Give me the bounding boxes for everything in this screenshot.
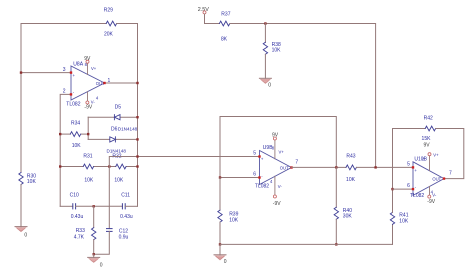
svg-text:0: 0	[268, 82, 271, 88]
svg-text:TL082: TL082	[255, 184, 269, 190]
svg-text:R43: R43	[346, 153, 355, 159]
resistor R42 15K	[422, 116, 436, 143]
wire: R37 to corner over to right column	[230, 24, 376, 168]
svg-text:TL082: TL082	[410, 193, 424, 199]
wire: top feedback row left lead to R29	[21, 23, 106, 25]
wire: R38 bottom to ground	[264, 54, 266, 78]
node: junction R31 left on pin2 net	[59, 165, 61, 167]
svg-text:20K: 20K	[104, 32, 114, 38]
svg-text:0.43u: 0.43u	[120, 214, 133, 220]
wire: C12 branch from midpoint down	[108, 167, 110, 229]
node: junction pin6/R41/R42	[391, 188, 393, 190]
svg-text:OUT: OUT	[280, 165, 289, 170]
svg-text:7: 7	[449, 170, 452, 176]
svg-text:5: 5	[253, 150, 256, 156]
svg-text:-9V: -9V	[427, 199, 435, 205]
resistor R33 4.7K	[74, 228, 96, 241]
node: junction R40-bottom rail	[335, 243, 337, 245]
wire: D5 row	[88, 116, 114, 118]
node: junction R34 right	[87, 133, 89, 135]
svg-text:R29: R29	[104, 8, 113, 14]
wire: R39 bottom to bottom rail	[219, 222, 221, 244]
svg-text:V+: V+	[91, 66, 97, 71]
pin square U8A pin3	[70, 71, 72, 73]
svg-text:15K: 15K	[422, 136, 432, 142]
svg-text:9V: 9V	[272, 133, 279, 139]
svg-text:10K: 10K	[114, 177, 124, 183]
node: junction output-rail	[136, 82, 138, 84]
V+ pin stub and 9V power symbol	[87, 63, 89, 74]
resistor R38 10K	[263, 42, 281, 54]
wire: left vertical net (pin3 node) from top-left corner down to R30	[20, 24, 22, 173]
svg-text:6: 6	[407, 183, 410, 189]
svg-text:C10: C10	[70, 193, 79, 199]
pin square U10B output	[443, 177, 445, 179]
resistor R31 10K	[83, 153, 94, 183]
svg-text:TL082: TL082	[66, 102, 80, 108]
wire: C10 to C11	[76, 205, 123, 207]
wire: midpoint bypass up and over to U9B pin5	[109, 157, 259, 167]
wire: R40 bottom to bottom rail	[335, 219, 337, 244]
resistor R39 10K	[218, 210, 239, 223]
wire: U8A pin2 route down	[60, 94, 71, 206]
wire: bottom ground rail	[220, 243, 393, 245]
V- pin stub and -9V power symbol	[429, 187, 431, 195]
V- pin stub and -9V power symbol	[274, 176, 276, 195]
wire: feedback box U9B (pin6 to output node)	[220, 117, 336, 178]
svg-text:U8A: U8A	[73, 61, 83, 67]
svg-text:10K: 10K	[399, 218, 409, 224]
svg-text:10K: 10K	[346, 177, 356, 183]
svg-text:R34: R34	[71, 121, 80, 127]
V+ pin stub and 9V power symbol	[429, 156, 431, 171]
resistor R29 20K	[104, 8, 117, 38]
wire: R33 bottom to ground node	[93, 240, 95, 255]
node: junction ground node left block	[93, 253, 95, 255]
svg-text:R42: R42	[424, 116, 433, 122]
wire: U8A output to rail	[105, 82, 138, 84]
wire: R33 branch down	[93, 206, 95, 227]
wire: U10B pin6 input	[393, 188, 414, 190]
capacitor C11 0.43u	[120, 193, 133, 221]
pin square U9B output	[290, 166, 292, 168]
svg-text:10K: 10K	[72, 143, 82, 149]
wire: vertical connecting D5/R34/D6 rows	[87, 117, 89, 139]
svg-text:0.9u: 0.9u	[119, 235, 129, 241]
svg-text:V+: V+	[433, 153, 439, 158]
wire: R42 right lead, down right side to output	[436, 129, 464, 179]
wire: R34 leads	[60, 133, 70, 135]
svg-text:8K: 8K	[221, 36, 228, 42]
wire: U8A pin3 input	[21, 72, 71, 74]
wire: C12 bottom to ground node	[94, 231, 110, 254]
wire: C11 right lead to rail bottom	[125, 205, 137, 207]
node: junction R37/R38	[264, 22, 266, 24]
svg-text:D6: D6	[111, 127, 118, 133]
svg-text:V-: V-	[432, 192, 437, 197]
ground 0 (middle bottom)	[214, 244, 227, 264]
resistor R30 10K	[19, 173, 37, 185]
resistor R43 10K	[346, 153, 356, 183]
capacitor C12 0.9u	[107, 228, 129, 240]
pin square U9B pin5	[258, 155, 260, 157]
node: junction 2.5V column meets pin5 row	[374, 166, 376, 168]
svg-text:0: 0	[224, 259, 227, 265]
svg-text:3: 3	[63, 67, 66, 73]
ground 0 (left block bottom)	[88, 254, 103, 268]
node: junction pin3 net	[20, 71, 22, 73]
wire: R43 to U10B pin5	[357, 166, 414, 168]
wire: C10 row left lead	[60, 205, 73, 207]
svg-text:5: 5	[407, 162, 410, 168]
svg-text:R33: R33	[76, 228, 85, 234]
diode D5 (pointing left)	[114, 105, 121, 120]
svg-text:R31: R31	[83, 153, 92, 159]
svg-text:9V: 9V	[423, 143, 430, 149]
svg-text:7: 7	[295, 159, 298, 165]
wire: D6 row	[88, 138, 110, 140]
resistor R40 30K	[334, 207, 352, 219]
svg-text:C11: C11	[121, 193, 130, 199]
svg-text:10K: 10K	[272, 48, 282, 54]
svg-text:2: 2	[63, 89, 66, 95]
op-amp U9B TL082	[253, 133, 298, 208]
wire: R41 branch up from rail	[392, 224, 394, 244]
svg-text:9V: 9V	[84, 56, 91, 62]
wire: U9B pin6 input	[220, 177, 260, 179]
wire: pin6 node down to R39	[219, 178, 221, 211]
node: junction C10/C11/R33	[93, 205, 95, 207]
node: junction bottom rail at ground	[219, 243, 221, 245]
node: junction bypass-rail	[136, 155, 138, 157]
resistor R32 10K	[112, 154, 126, 184]
wire: R32 leads	[109, 166, 115, 168]
svg-text:R37: R37	[221, 11, 230, 17]
svg-text:10K: 10K	[84, 177, 94, 183]
op-amp U10B TL082	[407, 143, 452, 206]
resistor R37 8K	[219, 11, 230, 42]
svg-text:0.43u: 0.43u	[71, 214, 84, 220]
node: junction R32-rail	[136, 165, 138, 167]
wire: R31 leads	[60, 166, 83, 168]
resistor R41 10K	[390, 212, 409, 224]
wire: R29 right lead to output rail	[117, 23, 138, 25]
svg-text:C12: C12	[119, 228, 128, 234]
svg-text:V+: V+	[279, 150, 285, 155]
svg-text:D1N4148: D1N4148	[118, 127, 138, 132]
svg-text:OUT: OUT	[432, 176, 441, 181]
ground 0 (left)	[15, 227, 27, 239]
capacitor C10 0.43u	[70, 193, 84, 221]
svg-text:D5: D5	[115, 105, 122, 111]
pin square U10B pin5	[412, 166, 414, 168]
wire: 2.5V to R37	[205, 23, 220, 25]
svg-text:0: 0	[100, 262, 103, 268]
svg-text:4.7K: 4.7K	[74, 234, 85, 240]
V+ pin stub and 9V power symbol	[274, 140, 276, 159]
svg-text:10K: 10K	[27, 179, 37, 185]
svg-text:30K: 30K	[343, 213, 353, 219]
svg-text:6: 6	[253, 172, 256, 178]
svg-text:0: 0	[24, 232, 27, 238]
svg-text:V-: V-	[278, 184, 283, 189]
svg-text:-9V: -9V	[273, 201, 281, 207]
node: junction R34 left on pin2 net	[59, 133, 61, 135]
wire: U9B output row to R43	[292, 166, 347, 168]
node: junction D5-rail	[136, 116, 138, 118]
pin square U8A output	[103, 82, 105, 84]
wire: R40 branch down	[335, 167, 337, 207]
pin square U9B pin6	[258, 176, 260, 178]
V- pin stub and -9V power symbol	[87, 92, 89, 101]
node: junction D6-rail	[136, 138, 138, 140]
svg-text:-9V: -9V	[84, 104, 92, 110]
wire: R41 top to pin6 node, up to R42 row	[392, 129, 394, 213]
svg-text:1: 1	[108, 78, 111, 84]
ground 0 (middle top)	[259, 78, 271, 88]
resistor R34 10K	[70, 121, 81, 150]
node: junction R31/R32 midpoint	[108, 165, 110, 167]
diode D6 (pointing right)	[110, 127, 138, 142]
wire: R30 bottom to ground	[20, 185, 22, 227]
svg-text:U10B: U10B	[414, 157, 427, 163]
pin square U8A pin2	[70, 93, 72, 95]
op-amp U8A TL082	[63, 56, 111, 110]
pin square U10B pin6	[412, 188, 414, 190]
wire: U8A output rail vertical	[137, 24, 139, 207]
node: junction pin6/R39/box	[219, 176, 221, 178]
svg-text:10K: 10K	[229, 217, 239, 223]
svg-text:D1N4148: D1N4148	[107, 148, 127, 153]
node: junction output/R40/box	[335, 166, 337, 168]
power symbol 2.5V	[198, 7, 209, 24]
wire: junction down to R38	[264, 24, 266, 43]
wire: R42 row left lead	[393, 128, 426, 130]
